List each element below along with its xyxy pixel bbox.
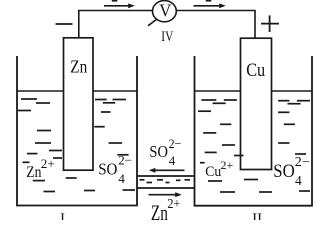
svg-text:2+: 2+ <box>41 157 55 171</box>
voltmeter needle stub <box>148 20 156 26</box>
svg-text:4: 4 <box>118 171 125 186</box>
beaker II outline <box>195 56 313 206</box>
connecting tube bottom <box>137 187 195 189</box>
minus terminal <box>56 23 73 25</box>
tube dashes <box>140 180 191 183</box>
svg-text:Cu: Cu <box>246 60 265 81</box>
svg-text:2+: 2+ <box>167 197 180 212</box>
Zn2+ migration arrow (right) <box>149 192 182 197</box>
Cu electrode <box>241 38 272 169</box>
svg-text:2+: 2+ <box>221 158 234 172</box>
wire <box>176 11 255 39</box>
liquid level beaker II right <box>272 90 313 92</box>
svg-text:4: 4 <box>169 153 176 168</box>
plus terminal <box>261 15 279 32</box>
electron arrow right <box>194 1 226 9</box>
liquid level beaker I <box>17 90 64 92</box>
svg-text:2−: 2− <box>169 136 182 151</box>
SO4 migration arrow (left) <box>149 168 185 173</box>
svg-text:SO: SO <box>273 162 295 182</box>
svg-text:Zn: Zn <box>151 200 168 220</box>
svg-text:IV: IV <box>161 29 173 45</box>
solution dashes beaker I <box>18 99 135 192</box>
svg-text:Zn: Zn <box>70 57 87 77</box>
electron arrow left <box>104 1 135 9</box>
Zn electrode <box>64 38 94 170</box>
liquid level beaker I right <box>93 90 137 92</box>
svg-text:V: V <box>159 1 171 21</box>
solution dashes beaker II <box>198 100 310 192</box>
wire <box>79 11 153 38</box>
svg-text:Zn: Zn <box>26 164 41 181</box>
beaker I outline <box>17 56 137 206</box>
svg-text:I: I <box>60 211 65 220</box>
svg-text:SO: SO <box>149 142 168 161</box>
svg-text:II: II <box>252 211 262 220</box>
svg-text:SO: SO <box>98 159 117 178</box>
connecting tube <box>137 175 195 177</box>
svg-text:2−: 2− <box>118 152 132 167</box>
svg-text:4: 4 <box>295 173 302 188</box>
voltmeter U (circle) <box>153 1 177 22</box>
liquid level beaker II <box>195 90 241 92</box>
svg-text:2−: 2− <box>295 154 310 169</box>
svg-text:Cu: Cu <box>205 164 221 180</box>
